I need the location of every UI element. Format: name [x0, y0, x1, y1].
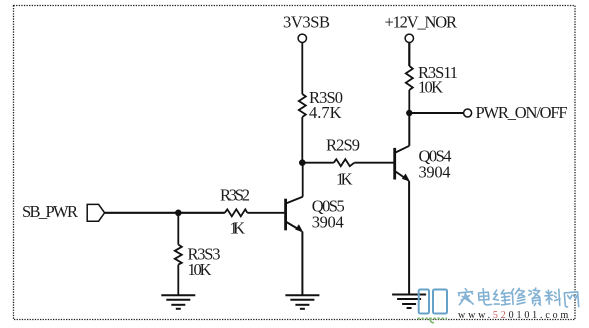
- svg-text:+12V_NOR: +12V_NOR: [385, 13, 458, 32]
- svg-text:R2S9: R2S9: [326, 135, 360, 154]
- svg-text:SB_PWR: SB_PWR: [22, 202, 78, 221]
- svg-text:www.520101.com: www.520101.com: [458, 310, 571, 321]
- svg-text:3V3SB: 3V3SB: [283, 13, 330, 32]
- svg-text:4.7K: 4.7K: [309, 103, 342, 122]
- svg-text:1K: 1K: [336, 170, 353, 189]
- svg-text:3904: 3904: [312, 213, 344, 232]
- svg-text:PWR_ON/OFF: PWR_ON/OFF: [476, 103, 568, 122]
- svg-text:10K: 10K: [188, 260, 212, 279]
- svg-text:3904: 3904: [419, 163, 451, 182]
- svg-text:R3S2: R3S2: [220, 186, 250, 205]
- svg-text:1K: 1K: [230, 219, 246, 238]
- svg-text:10K: 10K: [418, 78, 443, 97]
